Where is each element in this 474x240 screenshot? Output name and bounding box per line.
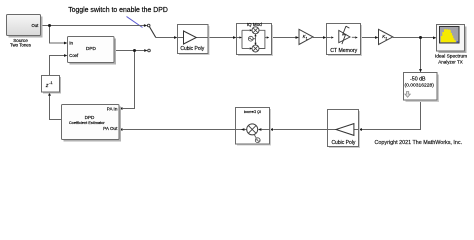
svg-text:Copyright 2021 The MathWorks,: Copyright 2021 The MathWorks, Inc. <box>375 140 463 146</box>
svg-text:CT Memory: CT Memory <box>330 48 357 54</box>
svg-text:2: 2 <box>385 37 387 41</box>
svg-text:Cubic Poly: Cubic Poly <box>331 140 355 146</box>
svg-text:1: 1 <box>306 37 308 41</box>
svg-text:Cubic Poly: Cubic Poly <box>180 46 204 52</box>
svg-text:Out: Out <box>32 23 40 28</box>
svg-text:PA Out: PA Out <box>103 126 118 131</box>
svg-text:In: In <box>69 40 73 45</box>
svg-text:Two Tones: Two Tones <box>10 43 32 48</box>
svg-text:(0.00316228): (0.00316228) <box>405 83 435 89</box>
svg-text:DPD: DPD <box>86 46 97 51</box>
svg-text:Toggle switch to enable the DP: Toggle switch to enable the DPD <box>68 7 168 14</box>
svg-text:Analyzer TX: Analyzer TX <box>438 60 462 65</box>
svg-text:IQ Demod: IQ Demod <box>244 110 261 114</box>
svg-text:Coef: Coef <box>69 53 79 58</box>
svg-text:IQ Mod: IQ Mod <box>247 22 263 27</box>
svg-text:z: z <box>45 83 49 89</box>
svg-text:PA In: PA In <box>107 107 118 112</box>
svg-text:-1: -1 <box>49 81 52 85</box>
svg-text:-50 dB: -50 dB <box>410 77 426 83</box>
svg-text:Coefficient Estimator: Coefficient Estimator <box>69 120 106 125</box>
